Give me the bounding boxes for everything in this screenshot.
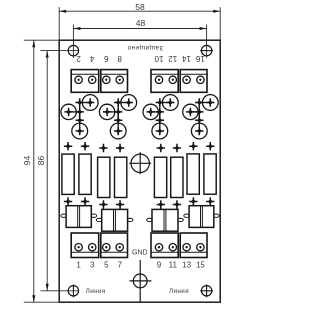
svg-text:10: 10 <box>154 54 163 63</box>
svg-text:12: 12 <box>168 54 177 63</box>
svg-text:86: 86 <box>36 156 46 166</box>
svg-text:9: 9 <box>157 261 162 270</box>
svg-text:3: 3 <box>90 261 95 270</box>
svg-text:16: 16 <box>195 54 204 63</box>
svg-text:4: 4 <box>89 54 94 63</box>
svg-text:6: 6 <box>104 54 109 63</box>
svg-text:5: 5 <box>104 261 109 270</box>
svg-text:2: 2 <box>76 54 81 63</box>
svg-text:GND: GND <box>132 249 148 256</box>
svg-text:11: 11 <box>169 261 178 270</box>
svg-text:48: 48 <box>136 18 146 28</box>
svg-text:Линия: Линия <box>169 288 189 295</box>
svg-text:8: 8 <box>117 54 122 63</box>
svg-text:58: 58 <box>135 2 145 12</box>
svg-text:13: 13 <box>182 261 191 270</box>
svg-text:7: 7 <box>117 261 122 270</box>
svg-text:Защищено: Защищено <box>127 44 163 51</box>
svg-text:14: 14 <box>182 54 191 63</box>
svg-text:1: 1 <box>76 261 81 270</box>
svg-text:15: 15 <box>196 261 205 270</box>
svg-text:Линия: Линия <box>86 288 106 295</box>
svg-text:94: 94 <box>22 156 32 166</box>
